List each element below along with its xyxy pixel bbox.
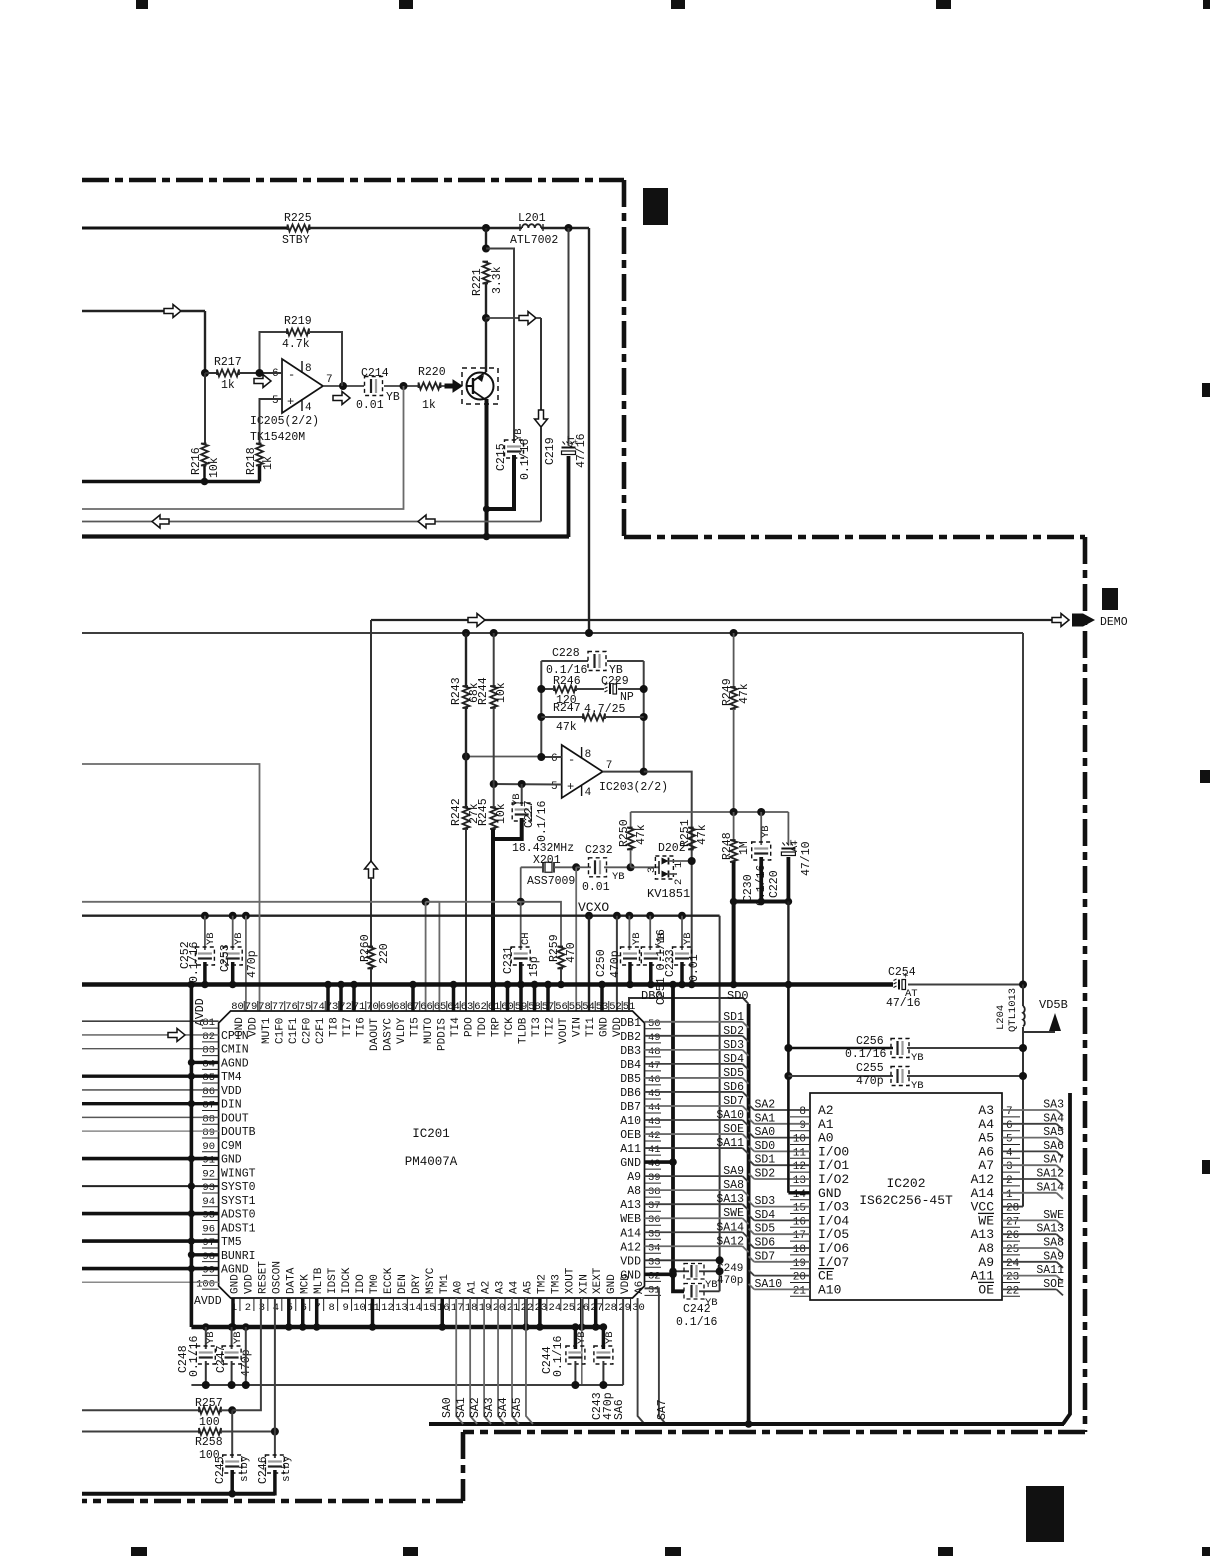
resistor R217 1k bbox=[205, 372, 217, 374]
svg-text:0.1/16: 0.1/16 bbox=[845, 1048, 887, 1061]
svg-text:67: 67 bbox=[407, 1001, 420, 1013]
capacitor C233 0.01 YB bbox=[681, 916, 683, 950]
svg-text:47/16: 47/16 bbox=[886, 997, 921, 1010]
svg-text:18: 18 bbox=[793, 1244, 806, 1256]
node junction L201 left bbox=[482, 224, 490, 232]
inductor L201 ATL7002 bbox=[522, 224, 541, 228]
svg-text:DB2: DB2 bbox=[620, 1031, 641, 1044]
signal arrow before inverting input bbox=[254, 375, 271, 388]
svg-text:R243: R243 bbox=[450, 677, 463, 705]
svg-text:C245: C245 bbox=[214, 1456, 227, 1484]
svg-text:SD3: SD3 bbox=[723, 1039, 744, 1052]
svg-text:3: 3 bbox=[646, 867, 658, 873]
svg-text:3.3k: 3.3k bbox=[491, 266, 504, 294]
svg-text:KV1851: KV1851 bbox=[647, 887, 690, 901]
wire y=633 down to C254 node bbox=[1022, 633, 1024, 985]
svg-text:I/O3: I/O3 bbox=[818, 1200, 849, 1215]
svg-text:A6: A6 bbox=[634, 1281, 646, 1294]
svg-text:64: 64 bbox=[447, 1001, 460, 1013]
svg-text:34: 34 bbox=[648, 1242, 661, 1254]
svg-text:C227: C227 bbox=[523, 800, 536, 828]
DB0 wire from pin51 to SD0 bus bbox=[629, 998, 743, 1011]
svg-text:C231: C231 bbox=[502, 946, 515, 974]
resistor R245 10k bbox=[490, 807, 497, 829]
svg-text:15p: 15p bbox=[528, 956, 541, 977]
svg-text:A2: A2 bbox=[818, 1103, 834, 1118]
svg-text:SD2: SD2 bbox=[723, 1025, 744, 1038]
svg-text:470p: 470p bbox=[609, 950, 622, 978]
registration marks top edge bbox=[136, 0, 148, 9]
svg-text:SD6: SD6 bbox=[723, 1081, 744, 1094]
svg-text:SA0: SA0 bbox=[755, 1126, 776, 1139]
signal arrow DEMO output half bbox=[1052, 614, 1069, 627]
svg-text:A8: A8 bbox=[627, 1185, 641, 1198]
svg-text:SOE: SOE bbox=[1043, 1278, 1064, 1291]
svg-text:42: 42 bbox=[648, 1130, 661, 1142]
SD bus thick vertical x=748.6 bbox=[747, 1004, 751, 1424]
svg-text:50: 50 bbox=[648, 1018, 661, 1030]
svg-text:80: 80 bbox=[231, 1001, 244, 1013]
VDD wire y=1385 bbox=[191, 1384, 623, 1386]
svg-text:VIN: VIN bbox=[572, 1017, 584, 1037]
svg-text:5: 5 bbox=[551, 781, 558, 793]
svg-text:IDCK: IDCK bbox=[341, 1267, 353, 1294]
svg-text:16: 16 bbox=[793, 1216, 806, 1228]
node junctions on y=633 bbox=[462, 629, 470, 637]
svg-text:C253: C253 bbox=[219, 944, 232, 972]
svg-text:A2: A2 bbox=[481, 1281, 493, 1294]
svg-text:TI6: TI6 bbox=[356, 1017, 368, 1037]
svg-text:C215: C215 bbox=[495, 443, 508, 471]
svg-text:A0: A0 bbox=[453, 1281, 465, 1294]
ground link thick y=901.5 bbox=[734, 900, 789, 904]
svg-text:R260: R260 bbox=[359, 934, 372, 962]
svg-text:QTL1013: QTL1013 bbox=[1007, 988, 1019, 1032]
capacitor C228 0.1/16 YB bbox=[593, 654, 595, 668]
svg-text:9: 9 bbox=[342, 1302, 348, 1314]
svg-text:+: + bbox=[567, 780, 574, 794]
svg-text:R258: R258 bbox=[195, 1436, 223, 1449]
varactor D202 KV1851 bbox=[655, 856, 673, 879]
section mark black square DEMO bbox=[1102, 588, 1118, 610]
svg-text:22: 22 bbox=[1006, 1285, 1019, 1297]
svg-text:SA2: SA2 bbox=[469, 1397, 482, 1418]
svg-text:A8: A8 bbox=[978, 1241, 994, 1256]
svg-text:39: 39 bbox=[648, 1172, 661, 1184]
node junction C245 on rail bbox=[228, 1490, 236, 1498]
svg-text:R259: R259 bbox=[548, 934, 561, 962]
svg-text:SD6: SD6 bbox=[755, 1237, 776, 1250]
svg-text:SD1: SD1 bbox=[755, 1154, 776, 1167]
svg-text:21: 21 bbox=[793, 1285, 807, 1297]
svg-text:0.01: 0.01 bbox=[582, 881, 610, 894]
svg-text:53: 53 bbox=[596, 1001, 609, 1013]
svg-text:R219: R219 bbox=[284, 315, 312, 328]
wire C227/R245 thick to ground bus bbox=[493, 818, 522, 839]
svg-text:PDDIS: PDDIS bbox=[437, 1018, 449, 1051]
svg-text:R221: R221 bbox=[471, 268, 484, 296]
node junction SD bus on trunk bbox=[745, 1420, 753, 1428]
svg-text:VDD: VDD bbox=[221, 1085, 242, 1098]
svg-text:L204: L204 bbox=[995, 1005, 1007, 1030]
svg-text:25: 25 bbox=[1006, 1244, 1019, 1256]
svg-text:58: 58 bbox=[528, 1001, 541, 1013]
svg-text:YB: YB bbox=[911, 1052, 924, 1064]
wire X201 node down to pin55 bbox=[575, 867, 577, 1011]
svg-text:I/O5: I/O5 bbox=[818, 1227, 849, 1242]
svg-text:R218: R218 bbox=[245, 447, 258, 475]
svg-text:CPIN: CPIN bbox=[221, 1030, 249, 1043]
wire VDD column x=720 (from VCXO bend) bbox=[719, 1265, 721, 1292]
svg-text:100: 100 bbox=[199, 1416, 220, 1429]
svg-text:0.1/16: 0.1/16 bbox=[519, 438, 532, 480]
capacitor C232 0.01 YB bbox=[576, 866, 591, 868]
svg-text:SWE: SWE bbox=[1043, 1209, 1064, 1222]
svg-text:19: 19 bbox=[479, 1302, 492, 1314]
svg-text:10k: 10k bbox=[495, 682, 508, 703]
svg-text:A9: A9 bbox=[978, 1255, 994, 1270]
svg-text:R249: R249 bbox=[721, 678, 734, 706]
svg-text:CE: CE bbox=[818, 1269, 834, 1284]
resistor R221 3.3k bbox=[485, 228, 487, 250]
registration marks bottom edge bbox=[131, 1547, 147, 1556]
svg-text:66: 66 bbox=[420, 1001, 433, 1013]
svg-text:SA9: SA9 bbox=[1043, 1250, 1064, 1263]
svg-text:R220: R220 bbox=[418, 366, 446, 379]
svg-text:100: 100 bbox=[196, 1278, 215, 1290]
svg-text:38: 38 bbox=[648, 1186, 661, 1198]
svg-text:SA12: SA12 bbox=[1036, 1168, 1064, 1181]
node junction R243/R242 bbox=[462, 753, 470, 761]
svg-text:6: 6 bbox=[1006, 1120, 1013, 1132]
capacitor C229 NP 4.7/25 electrolytic bbox=[609, 684, 611, 694]
svg-text:MUTO: MUTO bbox=[423, 1017, 435, 1044]
svg-text:C229: C229 bbox=[601, 675, 629, 688]
resistor R259 470 bbox=[558, 947, 565, 969]
wire C219 bottom thick bbox=[567, 456, 571, 537]
svg-text:ADST0: ADST0 bbox=[221, 1209, 256, 1222]
svg-text:84: 84 bbox=[202, 1058, 215, 1070]
svg-text:R246: R246 bbox=[553, 675, 581, 688]
svg-text:28: 28 bbox=[1006, 1203, 1019, 1215]
svg-text:GND: GND bbox=[230, 1274, 242, 1294]
svg-text:90: 90 bbox=[202, 1141, 215, 1153]
svg-text:55: 55 bbox=[569, 1001, 582, 1013]
svg-text:L201: L201 bbox=[518, 212, 546, 225]
pin31 wire down to SA7 bbox=[645, 1288, 666, 1424]
svg-text:0.01: 0.01 bbox=[356, 399, 384, 412]
svg-text:1k: 1k bbox=[221, 379, 235, 392]
wire D202 pin2 stub bbox=[669, 873, 678, 875]
svg-text:AVDD: AVDD bbox=[194, 1295, 222, 1308]
svg-text:CH: CH bbox=[520, 932, 532, 945]
svg-text:YB: YB bbox=[233, 932, 245, 945]
wire DEMO net y=620 bbox=[371, 619, 1052, 621]
IC202 left row wires from SD bus bbox=[749, 1105, 755, 1111]
IC202 pin14 GND thick from x=788 column bbox=[787, 985, 790, 1193]
node junctions y=812 bbox=[730, 808, 738, 816]
svg-text:1: 1 bbox=[1006, 1189, 1013, 1201]
svg-text:+: + bbox=[287, 395, 294, 409]
svg-text:A11: A11 bbox=[971, 1269, 995, 1284]
svg-text:72: 72 bbox=[339, 1001, 352, 1013]
svg-text:A13: A13 bbox=[971, 1227, 994, 1242]
svg-text:SA3: SA3 bbox=[1043, 1099, 1064, 1112]
svg-text:SD0: SD0 bbox=[727, 989, 749, 1003]
capacitor C255 470p YB bbox=[788, 1075, 893, 1077]
svg-text:SA1: SA1 bbox=[755, 1112, 776, 1125]
wire L204 down to IC202 VCC pin28 bbox=[1022, 1027, 1024, 1207]
svg-text:OEB: OEB bbox=[620, 1129, 641, 1142]
resistor R249 47k bbox=[733, 633, 735, 687]
capacitor C215 0.1/16 YB bbox=[507, 445, 521, 447]
svg-text:A11: A11 bbox=[620, 1143, 641, 1156]
svg-text:52: 52 bbox=[609, 1001, 622, 1013]
capacitor C250 470p YB bbox=[628, 916, 630, 950]
svg-text:YB: YB bbox=[511, 793, 523, 806]
svg-text:SA3: SA3 bbox=[483, 1397, 496, 1418]
capacitor C247 470p YB bbox=[231, 1327, 233, 1349]
svg-text:0.1/16: 0.1/16 bbox=[552, 1335, 565, 1377]
svg-text:21: 21 bbox=[507, 1302, 520, 1314]
capacitor C230 0.1/16 YB bbox=[760, 812, 762, 845]
svg-text:8: 8 bbox=[799, 1106, 806, 1118]
svg-text:TM3: TM3 bbox=[550, 1274, 562, 1294]
svg-text:48: 48 bbox=[648, 1046, 661, 1058]
svg-text:-: - bbox=[288, 368, 295, 382]
svg-text:24: 24 bbox=[549, 1302, 562, 1314]
svg-text:470p: 470p bbox=[856, 1075, 884, 1088]
svg-text:SD3: SD3 bbox=[755, 1195, 776, 1208]
capacitor C219 electrolytic AT 47/16 bbox=[568, 228, 570, 443]
svg-text:I/O7: I/O7 bbox=[818, 1255, 849, 1270]
resistor R250 47k bbox=[630, 812, 632, 827]
node junction R221 top branch to C215 bbox=[482, 245, 490, 253]
svg-text:65: 65 bbox=[434, 1001, 447, 1013]
crystal X201 ASS7009 18.432MHz bbox=[521, 866, 543, 868]
svg-text:0.1/16: 0.1/16 bbox=[188, 1335, 201, 1377]
capacitor C245 stby bbox=[231, 1410, 233, 1458]
wire from L201 down right side x=589 bbox=[588, 228, 590, 633]
svg-text:91: 91 bbox=[202, 1155, 215, 1167]
svg-text:C9M: C9M bbox=[221, 1140, 242, 1153]
wire thick C220 column to ground bus bbox=[787, 902, 789, 985]
svg-text:MCK: MCK bbox=[299, 1274, 311, 1294]
capacitor C252 0.1/16 YB bbox=[204, 916, 206, 950]
svg-text:SA11: SA11 bbox=[1036, 1264, 1064, 1277]
svg-text:TI5: TI5 bbox=[410, 1017, 422, 1037]
page border (dash-dot, bottom) bbox=[463, 1430, 1085, 1435]
svg-text:19: 19 bbox=[793, 1258, 806, 1270]
resistor R257 100 to pin3 bbox=[82, 1409, 199, 1411]
svg-text:TDO: TDO bbox=[477, 1017, 489, 1037]
node junction after C214 bbox=[400, 382, 408, 390]
svg-text:TRP: TRP bbox=[491, 1017, 503, 1037]
wire VCXO row y=915.7 bbox=[82, 915, 720, 917]
wire DEMO branch down x=371 (to R260/pin70) bbox=[370, 620, 372, 861]
svg-text:TI1: TI1 bbox=[585, 1017, 597, 1037]
svg-text:68: 68 bbox=[393, 1001, 406, 1013]
svg-text:CMIN: CMIN bbox=[221, 1044, 249, 1057]
wire varactor bias y=812 bbox=[631, 811, 789, 813]
svg-text:ASS7009: ASS7009 bbox=[527, 875, 575, 888]
svg-text:SD0: SD0 bbox=[755, 1140, 776, 1153]
svg-text:WE: WE bbox=[978, 1213, 994, 1228]
svg-text:47k: 47k bbox=[635, 824, 648, 845]
svg-text:IC203(2/2): IC203(2/2) bbox=[599, 781, 668, 794]
node junction emitter rail bbox=[483, 533, 491, 541]
wire D202 pin1 to output column bbox=[669, 860, 692, 862]
svg-text:A5: A5 bbox=[522, 1281, 534, 1294]
svg-text:40: 40 bbox=[648, 1158, 661, 1170]
svg-text:DB3: DB3 bbox=[620, 1045, 641, 1058]
svg-text:SA6: SA6 bbox=[1043, 1140, 1064, 1153]
svg-text:5: 5 bbox=[272, 395, 279, 407]
svg-text:83: 83 bbox=[202, 1045, 215, 1057]
svg-text:73: 73 bbox=[326, 1001, 339, 1013]
svg-text:57: 57 bbox=[542, 1001, 555, 1013]
svg-text:SA9: SA9 bbox=[723, 1165, 744, 1178]
svg-text:47/10: 47/10 bbox=[800, 841, 813, 876]
wire thick R248 column to ground bus bbox=[732, 902, 736, 985]
svg-text:SA14: SA14 bbox=[1036, 1181, 1064, 1194]
svg-text:VDD: VDD bbox=[248, 1017, 260, 1037]
inductor L204 QTL1013 bbox=[1022, 985, 1024, 1007]
svg-text:TM1: TM1 bbox=[439, 1274, 451, 1294]
svg-text:SD1: SD1 bbox=[723, 1011, 744, 1024]
svg-text:DB6: DB6 bbox=[620, 1087, 641, 1100]
svg-text:C256: C256 bbox=[856, 1035, 884, 1048]
signal arrow into Q201 base bbox=[445, 380, 462, 392]
svg-text:93: 93 bbox=[202, 1182, 215, 1194]
svg-text:4.7k: 4.7k bbox=[282, 338, 310, 351]
svg-text:C214: C214 bbox=[361, 367, 389, 380]
svg-text:2: 2 bbox=[673, 879, 685, 885]
svg-text:A1: A1 bbox=[467, 1280, 479, 1294]
svg-text:41: 41 bbox=[648, 1144, 661, 1156]
svg-text:0.1/16: 0.1/16 bbox=[188, 941, 201, 983]
svg-text:6: 6 bbox=[551, 753, 558, 765]
svg-text:IC201: IC201 bbox=[412, 1127, 450, 1141]
svg-text:TI4: TI4 bbox=[450, 1017, 462, 1037]
svg-text:85: 85 bbox=[202, 1072, 215, 1084]
resistor R216 10k bbox=[204, 373, 206, 443]
op-amp IC205(2/2) TK15420M bbox=[282, 359, 323, 413]
capacitor C220 electrolytic AT 47/10 bbox=[787, 812, 789, 845]
AVDD thick vertical left rail bbox=[190, 985, 194, 1328]
svg-text:VDD: VDD bbox=[243, 1274, 255, 1294]
resistor R244 10k bbox=[493, 633, 495, 686]
resistor R219 4.7k feedback bbox=[260, 332, 288, 373]
svg-text:89: 89 bbox=[202, 1127, 215, 1139]
svg-text:A6: A6 bbox=[978, 1144, 994, 1159]
svg-text:47: 47 bbox=[648, 1060, 661, 1072]
svg-text:DB1: DB1 bbox=[620, 1017, 641, 1030]
wire C232 node to D202 pin3 bbox=[631, 866, 659, 868]
svg-text:R251: R251 bbox=[679, 819, 692, 847]
svg-text:86: 86 bbox=[202, 1086, 215, 1098]
capacitor C243 470p YB bbox=[596, 1351, 610, 1353]
capacitor C246 stby bbox=[274, 1432, 276, 1459]
section mark black square top bbox=[643, 188, 668, 225]
svg-text:XIN: XIN bbox=[578, 1274, 590, 1294]
svg-text:470p: 470p bbox=[717, 1275, 743, 1287]
svg-text:470p: 470p bbox=[602, 1392, 615, 1420]
svg-text:I/O0: I/O0 bbox=[818, 1144, 849, 1159]
svg-text:88: 88 bbox=[202, 1113, 215, 1125]
svg-text:C1F1: C1F1 bbox=[288, 1017, 300, 1044]
svg-text:99: 99 bbox=[202, 1265, 215, 1277]
svg-text:C232: C232 bbox=[585, 844, 613, 857]
svg-text:54: 54 bbox=[582, 1001, 595, 1013]
wire VCO control y=633 bbox=[82, 632, 1023, 634]
svg-text:25: 25 bbox=[562, 1302, 575, 1314]
svg-text:SWE: SWE bbox=[723, 1207, 744, 1220]
supply rail thick y=536.5 bbox=[82, 534, 569, 538]
resistor R243 68k bbox=[465, 633, 467, 686]
svg-text:75: 75 bbox=[299, 1001, 312, 1013]
svg-text:DB0: DB0 bbox=[641, 989, 663, 1003]
node junctions feedback right bbox=[640, 685, 648, 693]
svg-text:SA8: SA8 bbox=[1043, 1237, 1064, 1250]
capacitor C244 0.1/16 YB bbox=[568, 1351, 582, 1353]
arrow into pin82 CPIN bbox=[168, 1028, 185, 1041]
svg-text:10k: 10k bbox=[495, 803, 508, 824]
node junction emitter/C215 rail bbox=[483, 505, 490, 512]
svg-text:R245: R245 bbox=[477, 798, 490, 826]
svg-text:SA0: SA0 bbox=[441, 1397, 454, 1418]
svg-text:ADST1: ADST1 bbox=[221, 1222, 256, 1235]
ground bus thick y=1327 bbox=[191, 1325, 605, 1329]
svg-text:77: 77 bbox=[272, 1001, 285, 1013]
resistor R225 bbox=[288, 225, 310, 232]
svg-text:47k: 47k bbox=[738, 683, 751, 704]
svg-text:27: 27 bbox=[1006, 1216, 1019, 1228]
IC202 IS62C256-45T package outline bbox=[810, 1093, 1002, 1300]
svg-text:DATA: DATA bbox=[285, 1267, 297, 1294]
svg-text:VLDY: VLDY bbox=[396, 1017, 408, 1044]
svg-text:TI3: TI3 bbox=[531, 1017, 543, 1037]
bus stubs to IC201 bottom pins bbox=[231, 1298, 235, 1327]
svg-text:4: 4 bbox=[1006, 1147, 1013, 1159]
wire y=902 jog to pin65 bbox=[426, 901, 440, 903]
svg-text:OSCON: OSCON bbox=[271, 1261, 283, 1294]
svg-text:C219: C219 bbox=[544, 437, 557, 465]
svg-text:C230: C230 bbox=[742, 874, 755, 902]
SA0-SA5 address lines down from pins 17-22 bbox=[456, 1298, 463, 1424]
svg-text:BUNRI: BUNRI bbox=[221, 1250, 256, 1263]
ground bus thick y=984.5 bbox=[82, 982, 893, 987]
svg-text:ATL7002: ATL7002 bbox=[510, 234, 558, 247]
wire pin80 feed x=245.9 bbox=[245, 916, 247, 1011]
svg-text:I/O1: I/O1 bbox=[818, 1158, 849, 1173]
svg-text:A1: A1 bbox=[818, 1117, 834, 1132]
svg-text:SYST0: SYST0 bbox=[221, 1181, 256, 1194]
capacitor C231 15p CH bbox=[520, 902, 522, 950]
node junctions on VDD wire bbox=[202, 1381, 210, 1389]
svg-text:1: 1 bbox=[673, 862, 685, 868]
svg-text:14: 14 bbox=[409, 1302, 422, 1314]
wire C215 bottom thick to emitter rail bbox=[487, 455, 514, 509]
wire return line y=509 from C214 node bbox=[82, 386, 404, 509]
svg-text:5: 5 bbox=[1006, 1134, 1013, 1146]
IC202 right row wires to SA bus with labels bbox=[1002, 1109, 1057, 1111]
svg-text:YB: YB bbox=[911, 1080, 924, 1092]
svg-text:stby: stby bbox=[239, 1455, 251, 1482]
svg-text:YB: YB bbox=[205, 932, 217, 945]
wire IC203 inverting input bbox=[465, 756, 541, 758]
svg-text:stby: stby bbox=[281, 1455, 293, 1482]
